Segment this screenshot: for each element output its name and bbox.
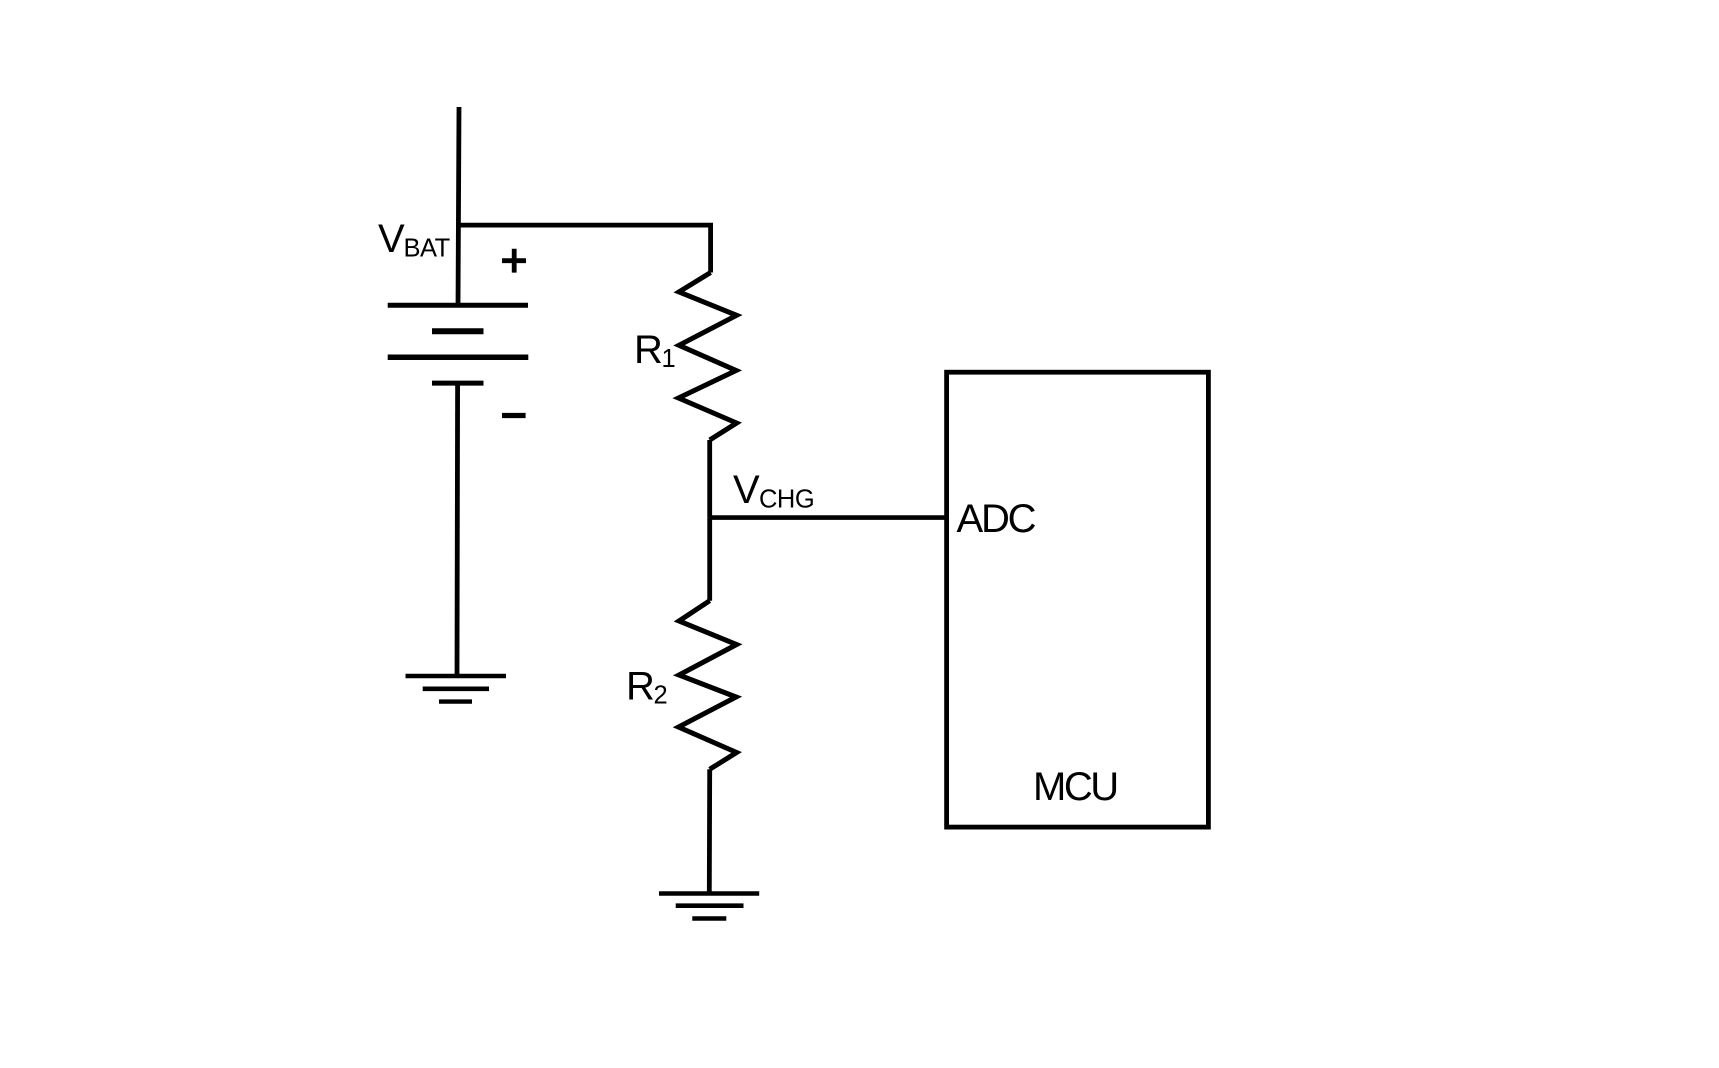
svg-text:BAT: BAT — [404, 234, 450, 262]
svg-text:MCU: MCU — [1033, 765, 1117, 809]
wire: VCHG node horizontal to MCU ADC pin — [710, 515, 946, 520]
wire: VBAT node horizontal to R1 top corner — [457, 225, 711, 272]
svg-text:CHG: CHG — [759, 485, 814, 513]
svg-text:2: 2 — [654, 682, 668, 710]
wire: R2 bottom lead to ground — [707, 769, 712, 893]
MCU box U1 — [947, 372, 1209, 827]
battery V1 plate short 2 (-) — [432, 381, 484, 386]
battery minus sign — [502, 413, 526, 418]
svg-text:1: 1 — [662, 345, 676, 373]
battery V1 plate long top (+) — [388, 303, 528, 308]
svg-text:R: R — [626, 665, 655, 709]
svg-text:V: V — [378, 217, 405, 261]
wire: battery positive vertical lead — [458, 107, 459, 307]
wire: R1 bottom lead to VCHG node — [707, 440, 712, 518]
battery plus sign — [502, 249, 526, 273]
battery V1 plate long 2 — [388, 355, 529, 361]
wire: R2 top lead — [707, 518, 712, 601]
wire: battery negative lead down to ground — [455, 383, 460, 676]
svg-text:R: R — [634, 328, 663, 372]
svg-text:V: V — [733, 468, 760, 512]
svg-text:ADC: ADC — [957, 497, 1036, 541]
resistor R2 zigzag — [679, 601, 737, 770]
resistor R1 zigzag — [679, 273, 737, 441]
ground GND1 (battery) — [406, 676, 507, 702]
battery V1 plate short 1 — [432, 328, 484, 334]
ground GND2 (R2) — [659, 894, 759, 919]
